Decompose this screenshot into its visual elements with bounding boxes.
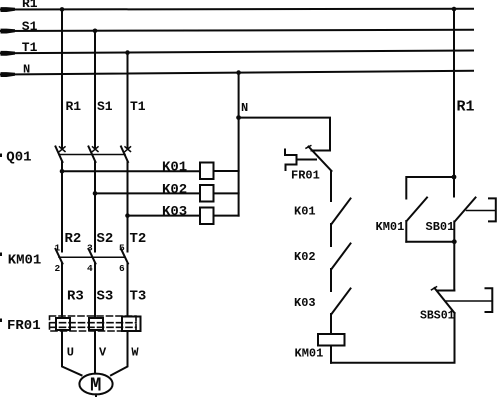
- svg-text:W: W: [131, 346, 139, 360]
- svg-text:SBS01: SBS01: [420, 309, 455, 322]
- wire K02 coil feed: [95, 192, 200, 194]
- contact K02 NO blade: [332, 244, 351, 270]
- bus N arrow: [1, 72, 16, 77]
- overload FR01 heater 2: [89, 318, 103, 330]
- svg-text:R1: R1: [22, 0, 38, 11]
- wire N drop: [238, 73, 240, 216]
- svg-text:R1: R1: [457, 99, 475, 116]
- svg-text:T3: T3: [130, 288, 147, 304]
- motor M1 bottom stub: [95, 394, 97, 397]
- wire phase R FR01 to motor: [62, 330, 82, 375]
- wire seal-in bottom bar: [406, 241, 454, 243]
- overload FR01 dashed link upper: [50, 322, 136, 324]
- svg-text:KM01: KM01: [295, 347, 324, 361]
- motor M1 circle: [79, 374, 112, 395]
- wire SB01 to SBS01: [453, 222, 455, 291]
- svg-text:K02: K02: [294, 250, 316, 264]
- pushbutton SBS01 operator link: [446, 300, 492, 302]
- svg-text:R3: R3: [67, 288, 84, 304]
- node R1 right tap junction: [452, 7, 457, 12]
- wire K03 to KM01 coil: [330, 314, 332, 334]
- wire phase T KM01 to FR01: [127, 264, 129, 317]
- breaker Q01 pole 2 x-cross: [93, 147, 99, 152]
- bus S1 arrow: [1, 29, 16, 34]
- relay coil K01 box: [200, 163, 214, 180]
- svg-text:R2: R2: [65, 231, 82, 247]
- contactor KM01 linkage: [59, 256, 125, 258]
- svg-text:S1: S1: [97, 99, 113, 114]
- scan speck left edge 1: [0, 154, 2, 158]
- wire phase R KM01 to FR01: [61, 264, 63, 319]
- wire N to FR01 contact: [239, 118, 330, 151]
- pushbutton SBS01 NC blade: [435, 288, 455, 313]
- node K02 tap junction: [93, 191, 98, 196]
- svg-text:Q01: Q01: [6, 149, 31, 165]
- svg-text:2: 2: [55, 263, 61, 274]
- pushbutton SBS01 blade tick: [432, 287, 437, 290]
- wire phase T drop to Q01: [127, 53, 129, 148]
- wire phase S KM01 to FR01: [94, 264, 96, 319]
- node S1 tap junction: [93, 29, 98, 34]
- svg-text:K01: K01: [162, 159, 187, 175]
- node seal-in top junction: [452, 175, 457, 180]
- svg-text:V: V: [99, 346, 107, 360]
- pushbutton SBS01 NC upper bar: [438, 290, 454, 292]
- wire K03 coil feed: [128, 215, 201, 217]
- wire K01 to K02 contact: [330, 224, 332, 246]
- node K03 tap junction: [125, 213, 130, 218]
- node R1 tap junction: [60, 7, 65, 12]
- wire bottom rail: [331, 313, 455, 363]
- svg-text:SB01: SB01: [426, 220, 455, 234]
- scan speck left edge 3: [0, 319, 2, 323]
- contactor KM01 pole 1 blade: [56, 249, 63, 264]
- svg-text:FR01: FR01: [291, 169, 320, 183]
- wire K03 coil to N: [214, 215, 239, 217]
- pushbutton SB01 operator link: [467, 210, 496, 212]
- wire K02 to K03 contact: [330, 269, 332, 291]
- pushbutton SB01 NO blade: [455, 198, 476, 222]
- bus T1 arrow: [1, 51, 16, 56]
- breaker Q01 pole 1 x-cross: [60, 147, 66, 152]
- breaker Q01 pole 3 x-cross: [125, 147, 131, 152]
- node K01 tap junction: [60, 169, 65, 174]
- bus R1 line: [1, 8, 473, 11]
- contact KM01 aux NO blade: [407, 198, 427, 222]
- breaker Q01 pole 1 blade: [56, 147, 63, 163]
- contact FR01 thermal hook: [285, 150, 297, 171]
- svg-text:S3: S3: [97, 288, 114, 304]
- svg-text:S2: S2: [97, 231, 114, 247]
- breaker Q01 linkage: [59, 154, 125, 156]
- overload FR01 dashed frame: [50, 316, 137, 331]
- breaker Q01 pole 2 blade: [89, 147, 96, 163]
- contactor KM01 pole 3 blade: [121, 249, 128, 264]
- contact K03 NO blade: [332, 289, 351, 315]
- svg-text:K01: K01: [294, 204, 316, 218]
- bus N line: [1, 71, 473, 75]
- wire phase T FR01 to motor: [111, 331, 128, 375]
- contactor KM01 pole 2 blade: [89, 249, 96, 264]
- contact FR01 NC blade tick: [306, 146, 311, 149]
- overload FR01 heater 3: [122, 317, 141, 332]
- svg-text:K03: K03: [294, 296, 316, 310]
- contact FR01 NC upper bar: [312, 150, 331, 152]
- overload FR01 dashed link lower: [50, 326, 136, 328]
- wire K02 coil to N: [214, 192, 239, 194]
- contact K01 NO blade: [332, 199, 351, 225]
- overload FR01 heater 1: [56, 318, 70, 330]
- wire seal-in branch top: [406, 177, 454, 199]
- relay coil K02 box: [200, 185, 214, 202]
- contact FR01 fixed lead: [297, 159, 317, 161]
- wire phase R drop to Q01: [61, 9, 63, 148]
- coil KM01 box: [318, 334, 345, 346]
- svg-text:K03: K03: [162, 204, 187, 220]
- svg-text:T2: T2: [130, 231, 147, 247]
- bus S1 line: [1, 30, 473, 31]
- svg-text:KM01: KM01: [376, 220, 405, 234]
- svg-text:T1: T1: [130, 99, 146, 114]
- svg-text:4: 4: [87, 263, 93, 274]
- bus T1 line: [1, 51, 473, 54]
- scan speck left edge 2: [0, 253, 2, 257]
- relay coil K03 box: [200, 208, 214, 225]
- wire KM01 coil to bottom rail: [330, 346, 332, 363]
- svg-text:R1: R1: [66, 99, 82, 114]
- svg-text:FR01: FR01: [7, 318, 41, 334]
- pushbutton SBS01 operator bracket: [486, 288, 493, 312]
- svg-text:6: 6: [119, 263, 125, 274]
- breaker Q01 pole 3 blade: [121, 147, 128, 163]
- wire phase T Q01 to KM01: [127, 162, 129, 252]
- svg-text:M: M: [90, 375, 101, 397]
- node N tap junction: [236, 70, 241, 75]
- svg-text:N: N: [241, 101, 248, 115]
- svg-text:S1: S1: [22, 19, 38, 34]
- wire phase R Q01 to KM01: [61, 162, 63, 252]
- wire phase S Q01 to KM01: [94, 162, 96, 252]
- node seal-in bottom junction: [452, 239, 457, 244]
- svg-text:K02: K02: [162, 182, 187, 198]
- wire phase S drop to Q01: [94, 31, 96, 148]
- svg-text:U: U: [67, 346, 74, 360]
- wire phase S FR01 to motor: [94, 330, 96, 374]
- node T1 tap junction: [125, 50, 130, 55]
- pushbutton SB01 operator bracket: [489, 198, 496, 221]
- wire FR01 to K01 contact: [330, 171, 332, 201]
- node N-FR01 junction: [236, 115, 241, 120]
- svg-text:N: N: [23, 63, 30, 77]
- contact FR01 NC blade: [309, 147, 332, 172]
- wire K01 coil to N: [214, 170, 239, 172]
- wire seal-in branch bottom: [405, 221, 407, 242]
- wire R1 control drop: [453, 9, 455, 197]
- svg-text:T1: T1: [22, 40, 38, 55]
- svg-text:KM01: KM01: [8, 252, 42, 268]
- bus R1 arrow: [1, 7, 16, 12]
- wire K01 coil feed: [62, 170, 200, 172]
